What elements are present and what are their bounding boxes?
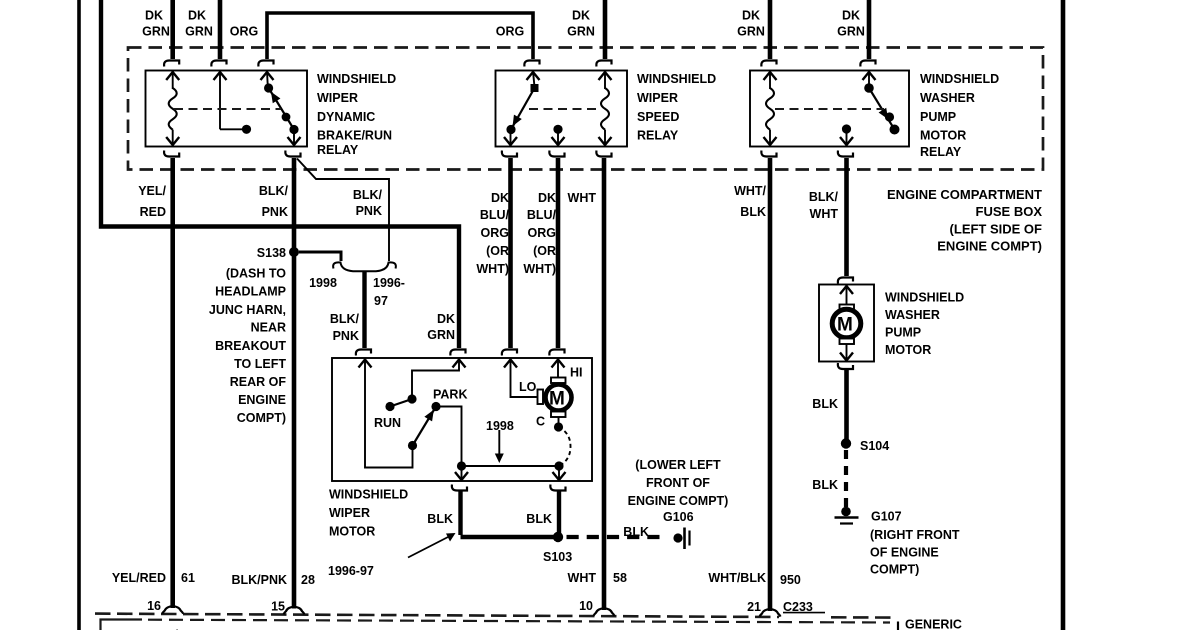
svg-text:MOTOR: MOTOR xyxy=(329,525,375,539)
svg-text:WINDSHIELD: WINDSHIELD xyxy=(329,488,408,502)
svg-text:10: 10 xyxy=(579,599,593,613)
svg-text:GRN: GRN xyxy=(427,328,455,342)
svg-text:1998: 1998 xyxy=(309,276,337,290)
svg-text:WHT/BLK: WHT/BLK xyxy=(708,571,766,585)
svg-text:C: C xyxy=(536,415,545,429)
svg-text:WHT: WHT xyxy=(810,207,839,221)
svg-text:RED: RED xyxy=(140,205,166,219)
svg-text:JUNC HARN,: JUNC HARN, xyxy=(209,303,286,317)
svg-text:(RIGHT FRONT: (RIGHT FRONT xyxy=(870,528,960,542)
svg-text:RUN: RUN xyxy=(374,416,401,430)
svg-text:BLK: BLK xyxy=(812,397,838,411)
svg-text:LO: LO xyxy=(519,380,537,394)
svg-text:MOTOR: MOTOR xyxy=(885,343,931,357)
svg-text:21: 21 xyxy=(747,600,761,614)
svg-text:1996-: 1996- xyxy=(373,276,405,290)
svg-text:DK: DK xyxy=(572,9,590,23)
svg-text:FRONT OF: FRONT OF xyxy=(646,476,710,490)
svg-text:YEL/: YEL/ xyxy=(138,184,166,198)
svg-text:BLK/: BLK/ xyxy=(353,188,383,202)
svg-text:WINDSHIELD: WINDSHIELD xyxy=(317,72,396,86)
svg-text:(LEFT SIDE OF: (LEFT SIDE OF xyxy=(950,222,1043,237)
svg-text:(OR: (OR xyxy=(486,244,509,258)
svg-text:PNK: PNK xyxy=(262,205,288,219)
svg-text:DK: DK xyxy=(842,9,860,23)
svg-text:58: 58 xyxy=(613,571,627,585)
svg-text:ORG: ORG xyxy=(481,226,509,240)
svg-text:1996-97: 1996-97 xyxy=(328,564,374,578)
svg-text:GENERIC: GENERIC xyxy=(905,618,962,630)
svg-text:PUMP: PUMP xyxy=(920,110,956,124)
svg-text:BRAKE/RUN: BRAKE/RUN xyxy=(317,129,392,143)
svg-text:BLK: BLK xyxy=(623,525,649,539)
svg-text:ENGINE COMPT): ENGINE COMPT) xyxy=(628,494,729,508)
svg-text:BLK: BLK xyxy=(812,478,838,492)
svg-text:DK: DK xyxy=(491,191,509,205)
svg-text:FUSE BOX: FUSE BOX xyxy=(976,204,1043,219)
svg-text:WHT: WHT xyxy=(568,571,597,585)
svg-text:OF ENGINE: OF ENGINE xyxy=(870,546,939,560)
svg-text:15: 15 xyxy=(271,600,285,614)
svg-text:MOTOR: MOTOR xyxy=(920,129,966,143)
svg-text:WINDSHIELD: WINDSHIELD xyxy=(885,291,964,305)
svg-text:ENGINE COMPT): ENGINE COMPT) xyxy=(937,239,1042,254)
svg-text:GRN: GRN xyxy=(837,25,865,39)
svg-text:G106: G106 xyxy=(663,510,694,524)
svg-text:GRN: GRN xyxy=(737,25,765,39)
svg-text:BLK/: BLK/ xyxy=(330,312,360,326)
svg-text:M: M xyxy=(549,389,565,410)
svg-text:ORG: ORG xyxy=(496,25,524,39)
svg-text:RELAY: RELAY xyxy=(637,129,679,143)
svg-text:RELAY: RELAY xyxy=(317,143,359,157)
svg-text:DYNAMIC: DYNAMIC xyxy=(317,110,375,124)
svg-text:ENGINE: ENGINE xyxy=(238,393,286,407)
svg-text:WASHER: WASHER xyxy=(885,308,940,322)
svg-text:(DASH TO: (DASH TO xyxy=(226,267,286,281)
svg-text:97: 97 xyxy=(374,294,388,308)
svg-text:S103: S103 xyxy=(543,550,572,564)
svg-text:DK: DK xyxy=(742,9,760,23)
svg-text:WHT/: WHT/ xyxy=(734,184,766,198)
svg-text:PUMP: PUMP xyxy=(885,326,921,340)
svg-text:WHT): WHT) xyxy=(476,262,509,276)
svg-text:COMPT): COMPT) xyxy=(237,411,286,425)
svg-text:DK: DK xyxy=(437,312,455,326)
svg-text:BLK/: BLK/ xyxy=(259,184,289,198)
svg-text:COMPT): COMPT) xyxy=(870,563,919,577)
svg-text:DK: DK xyxy=(188,9,206,23)
svg-text:61: 61 xyxy=(181,571,195,585)
svg-text:BLK: BLK xyxy=(740,205,766,219)
svg-text:WIPER: WIPER xyxy=(317,91,358,105)
svg-text:PARK: PARK xyxy=(433,388,468,402)
svg-text:ORG: ORG xyxy=(528,226,556,240)
svg-text:WINDSHIELD: WINDSHIELD xyxy=(920,72,999,86)
svg-text:DK: DK xyxy=(538,191,556,205)
svg-text:PNK: PNK xyxy=(356,204,382,218)
svg-text:S138: S138 xyxy=(257,246,286,260)
svg-text:G107: G107 xyxy=(871,510,902,524)
svg-text:WHT): WHT) xyxy=(523,262,556,276)
svg-text:WIPER: WIPER xyxy=(637,91,678,105)
svg-text:GRN: GRN xyxy=(567,25,595,39)
svg-text:BLK: BLK xyxy=(526,512,552,526)
svg-text:1998: 1998 xyxy=(486,419,514,433)
svg-text:PNK: PNK xyxy=(333,329,359,343)
svg-text:WINDSHIELD: WINDSHIELD xyxy=(637,72,716,86)
svg-text:HI: HI xyxy=(570,366,583,380)
svg-text:DK: DK xyxy=(145,9,163,23)
svg-text:(OR: (OR xyxy=(533,244,556,258)
svg-text:TO LEFT: TO LEFT xyxy=(234,357,286,371)
svg-text:BLK: BLK xyxy=(427,512,453,526)
svg-text:S104: S104 xyxy=(860,439,889,453)
svg-text:WASHER: WASHER xyxy=(920,91,975,105)
svg-text:WIPER: WIPER xyxy=(329,506,370,520)
svg-text:ORG: ORG xyxy=(230,25,258,39)
svg-text:M: M xyxy=(837,315,853,336)
svg-text:YEL/RED: YEL/RED xyxy=(112,571,166,585)
svg-text:BLU/: BLU/ xyxy=(527,208,557,222)
svg-text:BLU/: BLU/ xyxy=(480,208,510,222)
svg-text:WHT: WHT xyxy=(568,191,597,205)
svg-text:REAR OF: REAR OF xyxy=(230,375,287,389)
svg-text:SPEED: SPEED xyxy=(637,110,679,124)
svg-text:(LOWER LEFT: (LOWER LEFT xyxy=(635,458,721,472)
svg-text:BLK/: BLK/ xyxy=(809,190,839,204)
svg-text:NEAR: NEAR xyxy=(251,321,286,335)
svg-text:950: 950 xyxy=(780,573,801,587)
svg-text:BREAKOUT: BREAKOUT xyxy=(215,339,286,353)
svg-text:GRN: GRN xyxy=(142,25,170,39)
svg-text:16: 16 xyxy=(147,599,161,613)
svg-text:ENGINE COMPARTMENT: ENGINE COMPARTMENT xyxy=(887,187,1042,202)
svg-text:HEADLAMP: HEADLAMP xyxy=(215,285,286,299)
svg-text:28: 28 xyxy=(301,573,315,587)
svg-text:GRN: GRN xyxy=(185,25,213,39)
svg-text:RELAY: RELAY xyxy=(920,145,962,159)
svg-text:BLK/PNK: BLK/PNK xyxy=(231,573,287,587)
